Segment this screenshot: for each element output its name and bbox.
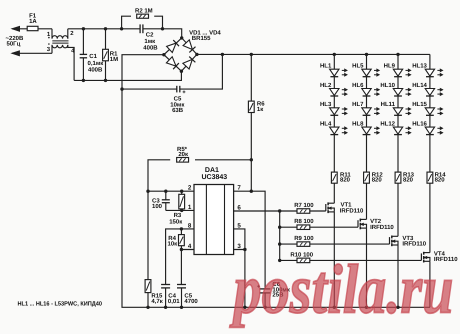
wire: pin 7 line and Vcc vertical to C6: [234, 191, 266, 289]
terminal arrow ~220V line: [12, 26, 20, 31]
svg-text:63В: 63В: [172, 107, 184, 114]
LED HL5: [362, 69, 371, 76]
capacitor C2 plates: [139, 24, 141, 33]
svg-text:HL3: HL3: [320, 101, 332, 108]
svg-text:6: 6: [237, 205, 241, 212]
svg-text:HL14: HL14: [412, 82, 427, 89]
junction R1 top: [104, 27, 107, 30]
inductor L1 common-mode choke winding 1-2: [51, 29, 53, 39]
svg-text:HL4: HL4: [320, 120, 332, 127]
svg-text:4,7к: 4,7к: [151, 298, 162, 305]
svg-text:3: 3: [237, 243, 241, 250]
svg-text:UC3843: UC3843: [201, 174, 227, 181]
svg-text:DA1: DA1: [205, 167, 219, 174]
capacitor C3 branch: [165, 191, 167, 200]
svg-text:HL5: HL5: [352, 63, 364, 70]
wire: R6 branch from plus rail to pin 7 line: [250, 54, 252, 101]
junction pin2 net: [146, 190, 149, 193]
svg-text:R9 100: R9 100: [294, 235, 314, 242]
wire: top rail C2 to bridge top corner: [143, 29, 181, 38]
junction gate bus: [278, 209, 281, 212]
svg-text:1A: 1A: [29, 18, 37, 25]
svg-text:VT2: VT2: [370, 218, 382, 225]
svg-text:50Гц: 50Гц: [7, 40, 21, 47]
wire: LED column 4: [429, 54, 431, 172]
transistor VT3: [389, 237, 391, 244]
junction pin5-pin3: [243, 248, 246, 251]
junction C1 bottom: [82, 79, 85, 82]
svg-text:HL16: HL16: [412, 120, 427, 127]
junction C5 ground: [180, 306, 183, 309]
terminal arrow ~220V neutral: [12, 51, 20, 56]
svg-text:1M: 1M: [110, 56, 118, 63]
LED HL7: [362, 108, 371, 115]
LED HL8: [362, 127, 371, 134]
C6 plus sign: [257, 285, 260, 287]
capacitor C6 plates: [260, 288, 271, 290]
junction column 2 ground: [365, 306, 368, 309]
resistor R3 branch: [181, 191, 183, 194]
capacitor C3 plates: [162, 199, 170, 201]
resistor R4 branch: [180, 229, 182, 235]
LED matrix top rail junctions: [333, 53, 336, 56]
svg-text:postila.ru: postila.ru: [229, 252, 453, 329]
svg-text:R8 100: R8 100: [294, 218, 314, 225]
LED HL16: [425, 127, 434, 134]
junction column 3 ground: [396, 306, 399, 309]
LED HL15: [425, 108, 434, 115]
svg-text:HL9: HL9: [384, 63, 396, 70]
wire: bridge minus corner to left vertical down to ground rail and ground rail: [122, 55, 430, 308]
resistor R9: [297, 242, 310, 247]
choke polarity dots: [48, 37, 50, 39]
resistor R15: [145, 280, 151, 293]
resistor R4: [179, 235, 185, 246]
junction R5 right to R6 line: [250, 158, 253, 161]
svg-text:400В: 400В: [143, 45, 158, 52]
wire: AC neutral input (bottom): [12, 52, 52, 54]
wire: plus rail: [197, 53, 430, 55]
svg-text:C2: C2: [146, 32, 154, 39]
svg-text:150к: 150к: [169, 218, 182, 225]
wire: C4 to ground: [165, 288, 167, 307]
diode VD3: [166, 57, 176, 66]
svg-text:HL12: HL12: [380, 120, 395, 127]
resistor R14: [427, 172, 433, 183]
svg-text:0,1мк: 0,1мк: [88, 60, 104, 67]
junction top rail: [120, 27, 123, 30]
wire: pin 5 to pin 3 vertical: [234, 229, 245, 250]
svg-text:1к: 1к: [257, 106, 263, 113]
svg-text:820: 820: [372, 177, 383, 184]
wire: pin 1 line: [166, 209, 194, 211]
LED HL12: [393, 127, 402, 134]
LED HL6: [362, 89, 371, 96]
diode VD4: [183, 59, 192, 69]
resistor R6: [248, 101, 254, 112]
svg-text:HL15: HL15: [412, 101, 427, 108]
svg-text:2: 2: [188, 185, 192, 192]
svg-text:5: 5: [237, 222, 241, 229]
resistor R7: [297, 209, 310, 214]
svg-text:20к: 20к: [178, 151, 188, 158]
resistor R13: [395, 172, 401, 183]
svg-text:820: 820: [403, 177, 414, 184]
svg-text:HL1 ... HL16 - L53PWC, КИПД40: HL1 ... HL16 - L53PWC, КИПД40: [18, 300, 103, 307]
svg-text:1: 1: [188, 204, 192, 211]
resistor R5: [177, 158, 189, 163]
svg-text:IRFD110: IRFD110: [370, 224, 394, 231]
junction pin3 ground: [243, 306, 246, 309]
wire: gate bus vertical: [279, 211, 281, 260]
resistor R2 branch wire: [122, 16, 131, 29]
wire: neutral rail to bridge bottom corner: [74, 71, 181, 80]
junction C5 left: [120, 87, 123, 90]
junction column 1 ground: [333, 306, 336, 309]
LED HL10: [393, 89, 402, 96]
junction R3 bottom: [180, 209, 183, 212]
LED HL4: [330, 127, 339, 134]
svg-text:HL8: HL8: [352, 120, 364, 127]
junction R1 bottom: [104, 79, 107, 82]
svg-text:4700: 4700: [184, 298, 198, 305]
svg-text:HL10: HL10: [380, 82, 395, 89]
resistor R11: [331, 172, 337, 183]
svg-text:IRFD110: IRFD110: [340, 208, 364, 215]
wire: C5 smoothing line: [122, 88, 177, 90]
wire: pin 8 line to C4: [166, 229, 194, 284]
junction C4 ground: [164, 306, 167, 309]
transistor VT2: [357, 220, 359, 227]
junction R6 line to pin7 wire: [250, 190, 253, 193]
resistor R1: [103, 49, 109, 61]
LED HL1: [330, 69, 339, 76]
diode VD2: [183, 40, 192, 50]
svg-text:HL7: HL7: [352, 101, 364, 108]
inductor L1 winding 3-4: [51, 45, 53, 53]
junction pin4 line: [180, 248, 183, 251]
svg-text:HL1: HL1: [320, 63, 332, 70]
LED HL9: [393, 69, 402, 76]
wire: gate line R9: [280, 243, 390, 245]
wire: LED column 3: [397, 54, 399, 172]
bridge corner junctions: [180, 36, 183, 39]
svg-text:4: 4: [188, 243, 192, 250]
svg-text:820: 820: [435, 177, 446, 184]
diode VD1: [167, 43, 177, 52]
svg-text:1мк: 1мк: [144, 38, 155, 45]
resistor R2: [137, 14, 149, 18]
svg-text:VT1: VT1: [341, 201, 353, 208]
wire: LED column 1: [333, 54, 335, 172]
wire: C5 to ground: [181, 288, 183, 307]
wire: gate line R8: [280, 226, 358, 228]
svg-text:10к: 10к: [168, 240, 178, 247]
wire: LED column 2: [366, 54, 368, 172]
C5 plus sign: [183, 91, 186, 93]
svg-text:IRFD110: IRFD110: [402, 241, 426, 248]
bridge rectifier VD1-VD4 frame: [164, 38, 197, 71]
svg-text:8: 8: [188, 222, 192, 229]
svg-text:820: 820: [340, 177, 351, 184]
fuse F1: [27, 26, 38, 30]
junction C6 ground: [263, 306, 266, 309]
LED HL3: [330, 108, 339, 115]
junction C5 to plus rail: [221, 53, 224, 56]
svg-text:HL11: HL11: [381, 101, 396, 108]
LED HL2: [330, 89, 339, 96]
svg-text:400В: 400В: [88, 66, 103, 73]
svg-text:R7 100: R7 100: [294, 202, 314, 209]
junction R4 top: [180, 227, 183, 230]
capacitor C5 (4700) plates: [177, 284, 186, 286]
wire: pin 2 line: [148, 190, 194, 192]
junction R15 ground: [146, 306, 149, 309]
wire: top rail choke to C2: [68, 28, 140, 30]
junction R6 plus rail: [250, 53, 253, 56]
capacitor C1 plates: [80, 53, 87, 55]
capacitor C5 plates: [176, 86, 178, 93]
resistor R1 branch wire: [105, 29, 107, 50]
wire: pin 6 gate drive line: [234, 210, 326, 212]
svg-text:HL13: HL13: [412, 63, 427, 70]
resistor R8: [297, 225, 310, 230]
svg-text:C5: C5: [174, 95, 182, 102]
wire: gate line R10: [280, 259, 422, 261]
svg-text:100: 100: [152, 203, 163, 210]
IC DA1 UC3843 body: [194, 185, 234, 255]
svg-text:C1: C1: [89, 53, 97, 60]
svg-text:HL6: HL6: [352, 82, 364, 89]
svg-text:R3: R3: [174, 212, 182, 219]
svg-text:R2 1M: R2 1M: [135, 8, 153, 15]
resistor R10: [297, 258, 310, 263]
resistor R12: [364, 172, 370, 183]
svg-text:0,01: 0,01: [168, 298, 180, 305]
LED HL11: [393, 108, 402, 115]
wire: AC line input (top) with fuse feed: [12, 28, 52, 30]
resistor R5 wire: [148, 160, 170, 191]
wire: pin 4 line to C5 4700: [181, 250, 194, 285]
transistor VT1: [325, 204, 327, 211]
transistor VT4: [420, 253, 422, 260]
resistor R15 branch wire: [147, 191, 149, 279]
wire: pin 3 line down to ground: [234, 250, 245, 308]
svg-text:BR155: BR155: [192, 35, 211, 42]
LED HL14: [425, 89, 434, 96]
resistor R3: [179, 194, 185, 209]
junction C1 top: [82, 27, 85, 30]
LED HL13: [425, 69, 434, 76]
capacitor C4 plates: [161, 284, 170, 286]
wire: C6 to ground: [264, 293, 266, 307]
svg-text:HL2: HL2: [320, 82, 332, 89]
capacitor C1 branch wire: [82, 29, 84, 55]
inductor L1 core: [52, 40, 68, 42]
svg-text:7: 7: [237, 185, 241, 192]
